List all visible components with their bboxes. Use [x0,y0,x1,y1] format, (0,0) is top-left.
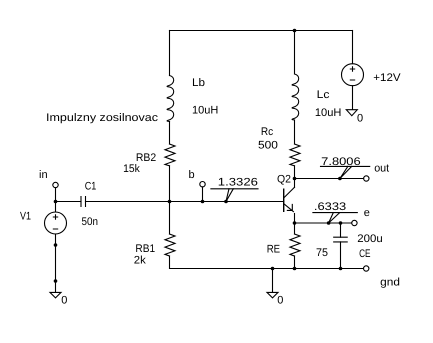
svg-text:1.3326: 1.3326 [218,177,258,189]
svg-text:15k: 15k [123,163,140,175]
svg-text:in: in [39,169,48,181]
svg-text:.6333: .6333 [314,201,346,213]
svg-text:V1: V1 [20,211,31,223]
svg-text:e: e [364,207,370,219]
svg-text:500: 500 [258,140,278,152]
svg-text:RB1: RB1 [135,243,155,255]
svg-text:0: 0 [357,113,363,125]
svg-text:gnd: gnd [380,276,400,288]
svg-text:50n: 50n [82,216,99,228]
svg-text:Impulzny zosilnovac: Impulzny zosilnovac [46,112,159,124]
svg-text:+12V: +12V [373,72,401,84]
svg-text:CE: CE [359,248,370,260]
svg-text:75: 75 [316,247,328,259]
svg-text:RE: RE [267,244,280,256]
svg-text:C1: C1 [85,181,97,193]
svg-text:0: 0 [277,295,283,307]
svg-text:Lc: Lc [317,89,330,101]
svg-text:10uH: 10uH [315,107,342,119]
svg-text:out: out [374,163,389,175]
svg-text:Q2: Q2 [277,174,291,186]
svg-text:10uH: 10uH [192,105,218,117]
svg-text:Rc: Rc [261,126,274,138]
svg-text:b: b [189,169,195,181]
svg-text:0: 0 [61,295,67,307]
svg-text:7.8006: 7.8006 [321,156,361,168]
svg-text:2k: 2k [134,255,147,267]
svg-text:Lb: Lb [192,77,205,89]
svg-text:200u: 200u [357,233,382,245]
